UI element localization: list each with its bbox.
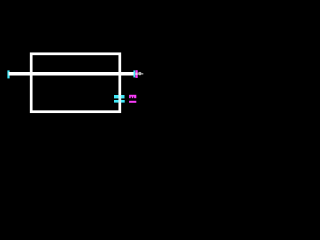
wire (9, 72, 134, 76)
capacitor C1 top plate (114, 95, 125, 98)
capacitor C1 bottom plate (114, 100, 125, 103)
port bar right (135, 70, 137, 78)
pin left (7, 70, 9, 78)
pin right (133, 70, 135, 77)
component body box U1 (31, 54, 120, 112)
label text line 1 (129, 95, 136, 98)
label text line 2 (129, 101, 136, 103)
capacitor lead blend (119, 95, 122, 103)
node stub (141, 73, 143, 75)
wire end blend over port (135, 73, 138, 75)
node dot (138, 72, 141, 75)
